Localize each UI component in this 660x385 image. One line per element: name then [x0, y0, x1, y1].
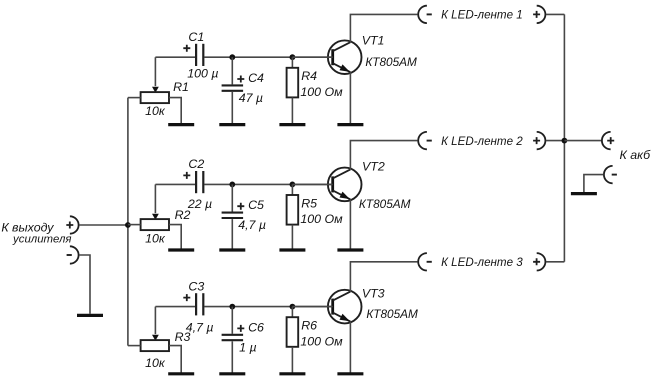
svg-text:C4: C4 [248, 71, 264, 85]
ground R4 [279, 123, 305, 126]
connector X1 input + [70, 216, 79, 233]
svg-text:C6: C6 [248, 320, 264, 334]
wire +12V bus (right) [563, 14, 565, 261]
wire wiper feed channel 1 [154, 57, 156, 86]
wire battery - to ground [584, 175, 604, 192]
ground VT3 [337, 372, 363, 375]
wire collector of VT3 to LED connector [350, 262, 417, 292]
ground VT1 [337, 123, 363, 126]
connector battery - [604, 166, 613, 183]
ground R1 [168, 123, 194, 126]
capacitor C5 (shunt, polarized) [231, 184, 233, 211]
capacitor C3 (series, polarized) [195, 293, 197, 315]
polarity + of C4 [237, 76, 244, 83]
wire R1 left lead [128, 97, 141, 99]
svg-text:100 Ом: 100 Ом [300, 212, 343, 226]
connector battery + (К акб) [602, 132, 611, 149]
svg-text:К выходу: К выходу [1, 220, 54, 234]
svg-text:10к: 10к [145, 104, 166, 118]
ground C5 [219, 248, 245, 251]
svg-text:VT3: VT3 [362, 287, 385, 301]
svg-text:R6: R6 [301, 319, 317, 333]
wire channel 2 signal rail [155, 183, 195, 185]
svg-text:10к: 10к [145, 232, 166, 246]
wire LED2 plus to +bus [546, 140, 565, 142]
resistor R6 100 Ом [291, 307, 293, 318]
wire collector of VT1 to LED connector [350, 14, 417, 42]
svg-text:C3: C3 [188, 279, 204, 293]
wiper arrow of R2 [152, 214, 159, 220]
wire channel 1 signal rail [155, 56, 195, 58]
connector LED strip 1 minus [418, 6, 427, 23]
wiper arrow of R3 [152, 335, 159, 341]
svg-text:КТ805АМ: КТ805АМ [366, 307, 418, 321]
potentiometer R1 10к [141, 92, 169, 103]
svg-text:VT2: VT2 [362, 159, 385, 173]
transistor VT2 КТ805АМ (NPN) [328, 168, 362, 202]
wire R2 right lead to ground [169, 225, 181, 249]
svg-text:К LED-ленте 3: К LED-ленте 3 [441, 256, 523, 269]
svg-text:К акб: К акб [619, 148, 651, 162]
connector LED strip 2 plus [537, 132, 546, 149]
svg-text:усилителя: усилителя [12, 234, 71, 246]
wire LED3 plus to +bus [546, 261, 565, 263]
ground C4 [219, 123, 245, 126]
resistor R4 100 Ом [291, 57, 293, 68]
svg-text:22 µ: 22 µ [187, 197, 212, 211]
wire bus to battery + [564, 140, 601, 142]
wire wiper feed channel 2 [154, 184, 156, 213]
svg-text:R1: R1 [173, 80, 189, 94]
wiper arrow of R1 [152, 87, 159, 93]
svg-text:КТ805АМ: КТ805АМ [365, 55, 417, 69]
svg-text:КТ805АМ: КТ805АМ [359, 197, 411, 211]
svg-text:C2: C2 [188, 157, 204, 171]
wire emitter of VT1 to ground [349, 72, 351, 123]
wire base of VT1 [292, 56, 332, 58]
svg-text:4,7 µ: 4,7 µ [186, 321, 214, 335]
ground VT2 [337, 248, 363, 251]
wire R2 left lead [128, 224, 141, 226]
wire emitter of VT2 to ground [349, 199, 351, 248]
wire base of VT2 [292, 183, 332, 185]
wire emitter of VT3 to ground [349, 322, 351, 373]
emitter arrow of VT1 [340, 64, 350, 72]
svg-text:100 Ом: 100 Ом [300, 85, 343, 99]
capacitor C4 (shunt, polarized) [231, 57, 233, 84]
node IN (junction) [125, 222, 131, 228]
svg-text:10к: 10к [145, 356, 166, 370]
svg-text:К LED-ленте 1: К LED-ленте 1 [441, 9, 523, 22]
ground R3 [168, 372, 194, 375]
node A2 (junction) [229, 182, 235, 188]
svg-text:VT1: VT1 [362, 34, 385, 48]
svg-text:C5: C5 [248, 198, 264, 212]
svg-text:100 Ом: 100 Ом [300, 334, 343, 348]
node A3 (junction) [229, 304, 235, 310]
node A1 (junction) [229, 54, 235, 60]
connector LED strip 3 plus [537, 253, 546, 270]
wire wiper feed channel 3 [154, 307, 156, 335]
node B1 (junction) [290, 54, 296, 60]
ground R6 [279, 372, 305, 375]
node B2 (junction) [290, 182, 296, 188]
wire R1 right lead to ground [169, 98, 181, 124]
wire LED1 plus to +bus [546, 13, 565, 15]
polarity + of C2 [183, 172, 190, 179]
wire R3 left lead [128, 345, 141, 347]
emitter arrow of VT3 [340, 314, 350, 322]
polarity + of C1 [183, 45, 190, 52]
svg-text:100 µ: 100 µ [187, 67, 218, 81]
transistor VT3 КТ805АМ (NPN) [328, 290, 362, 324]
ground battery [571, 192, 597, 195]
capacitor C1 (series, polarized) [195, 44, 197, 66]
ground C6 [219, 372, 245, 375]
svg-text:R4: R4 [301, 69, 317, 83]
svg-text:К LED-ленте 2: К LED-ленте 2 [441, 135, 523, 148]
emitter arrow of VT2 [340, 192, 350, 200]
connector X2 input - [70, 246, 79, 263]
capacitor C2 (series, polarized) [195, 171, 197, 193]
wire input + to node IN [79, 224, 128, 226]
wire input - to ground [79, 255, 90, 314]
resistor R5 100 Ом [291, 184, 293, 195]
node B3 (junction) [290, 304, 296, 310]
connector LED strip 1 plus [537, 6, 546, 23]
wire collector of VT2 to LED connector [350, 141, 417, 170]
node VBAT (junction) [562, 138, 568, 144]
svg-text:47 µ: 47 µ [239, 91, 263, 105]
ground input [77, 314, 103, 317]
polarity + of C5 [237, 203, 244, 210]
connector LED strip 2 minus [418, 132, 427, 149]
svg-text:4,7 µ: 4,7 µ [238, 218, 266, 232]
potentiometer R2 10к [141, 219, 169, 230]
wire channel 3 signal rail [155, 306, 195, 308]
polarity + of C3 [183, 294, 190, 301]
svg-text:C1: C1 [188, 30, 204, 44]
transistor VT1 КТ805АМ (NPN) [328, 40, 362, 74]
ground R5 [279, 248, 305, 251]
ground R2 [168, 248, 194, 251]
svg-text:R5: R5 [301, 196, 317, 210]
svg-text:1 µ: 1 µ [239, 340, 256, 354]
wire base of VT3 [292, 306, 332, 308]
potentiometer R3 10к [141, 340, 169, 351]
wire R3 right lead to ground [169, 346, 181, 373]
connector LED strip 3 minus [418, 253, 427, 270]
capacitor C6 (shunt, polarized) [231, 307, 233, 334]
wire left bus (pot inputs) [127, 98, 129, 346]
polarity + of C6 [237, 325, 244, 332]
